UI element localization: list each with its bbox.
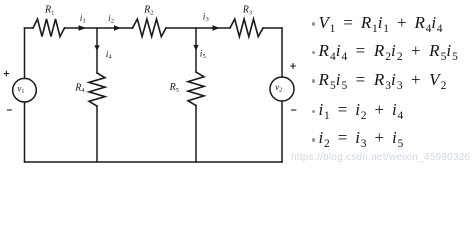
wire branch R4 upper: [96, 28, 98, 73]
svg-text:R4: R4: [74, 82, 85, 94]
svg-text:R3: R3: [242, 5, 252, 17]
voltage source v1: [13, 78, 37, 102]
circuit schematic: [0, 0, 310, 169]
svg-text:i3: i3: [203, 13, 209, 24]
arrowhead current i5: [193, 45, 198, 51]
resistor R2: [133, 19, 167, 37]
svg-text:R1: R1: [44, 5, 54, 17]
svg-text:i4: i4: [106, 50, 113, 61]
resistor R1: [33, 19, 65, 37]
voltage source v2: [270, 77, 294, 101]
plus sign v1: [4, 71, 8, 75]
wire branch R5 upper: [195, 28, 197, 72]
arrowhead current i1: [79, 25, 87, 31]
svg-text:v1: v1: [17, 83, 24, 95]
wire R3 to right corner: [263, 27, 282, 29]
wire R2 to R3 through node 2: [166, 27, 230, 29]
arrowhead current i3: [213, 25, 220, 30]
wire top segment left corner to R1: [25, 27, 34, 29]
wire left side lower: [24, 102, 26, 162]
equation 5: [312, 138, 316, 142]
equation 3: [312, 79, 316, 83]
svg-text:R2: R2: [143, 5, 153, 17]
svg-text:i2: i2: [108, 14, 114, 25]
minus sign v1: [8, 109, 12, 111]
wire R1 to R2 through node 1: [65, 27, 133, 29]
svg-text:R5: R5: [169, 82, 179, 94]
svg-text:v2: v2: [275, 82, 282, 94]
arrowhead current i2: [114, 25, 121, 30]
equation 1: [312, 22, 316, 26]
svg-text:i5: i5: [200, 49, 206, 60]
wire bottom: [25, 161, 283, 163]
resistor R4: [89, 73, 105, 106]
watermark: [291, 152, 473, 163]
resistor R5: [188, 72, 204, 106]
arrowhead current i4: [94, 45, 99, 51]
wire right side lower: [281, 101, 283, 162]
wire branch R5 lower: [195, 106, 197, 163]
wire left side upper: [24, 28, 26, 78]
equation 4: [312, 110, 316, 114]
wire branch R4 lower: [96, 106, 98, 162]
wire right side upper: [281, 28, 283, 77]
minus sign v2: [292, 109, 296, 111]
equation 2: [312, 51, 316, 55]
svg-text:i1: i1: [80, 14, 86, 25]
plus sign v2: [291, 64, 296, 69]
resistor R3: [230, 19, 263, 37]
